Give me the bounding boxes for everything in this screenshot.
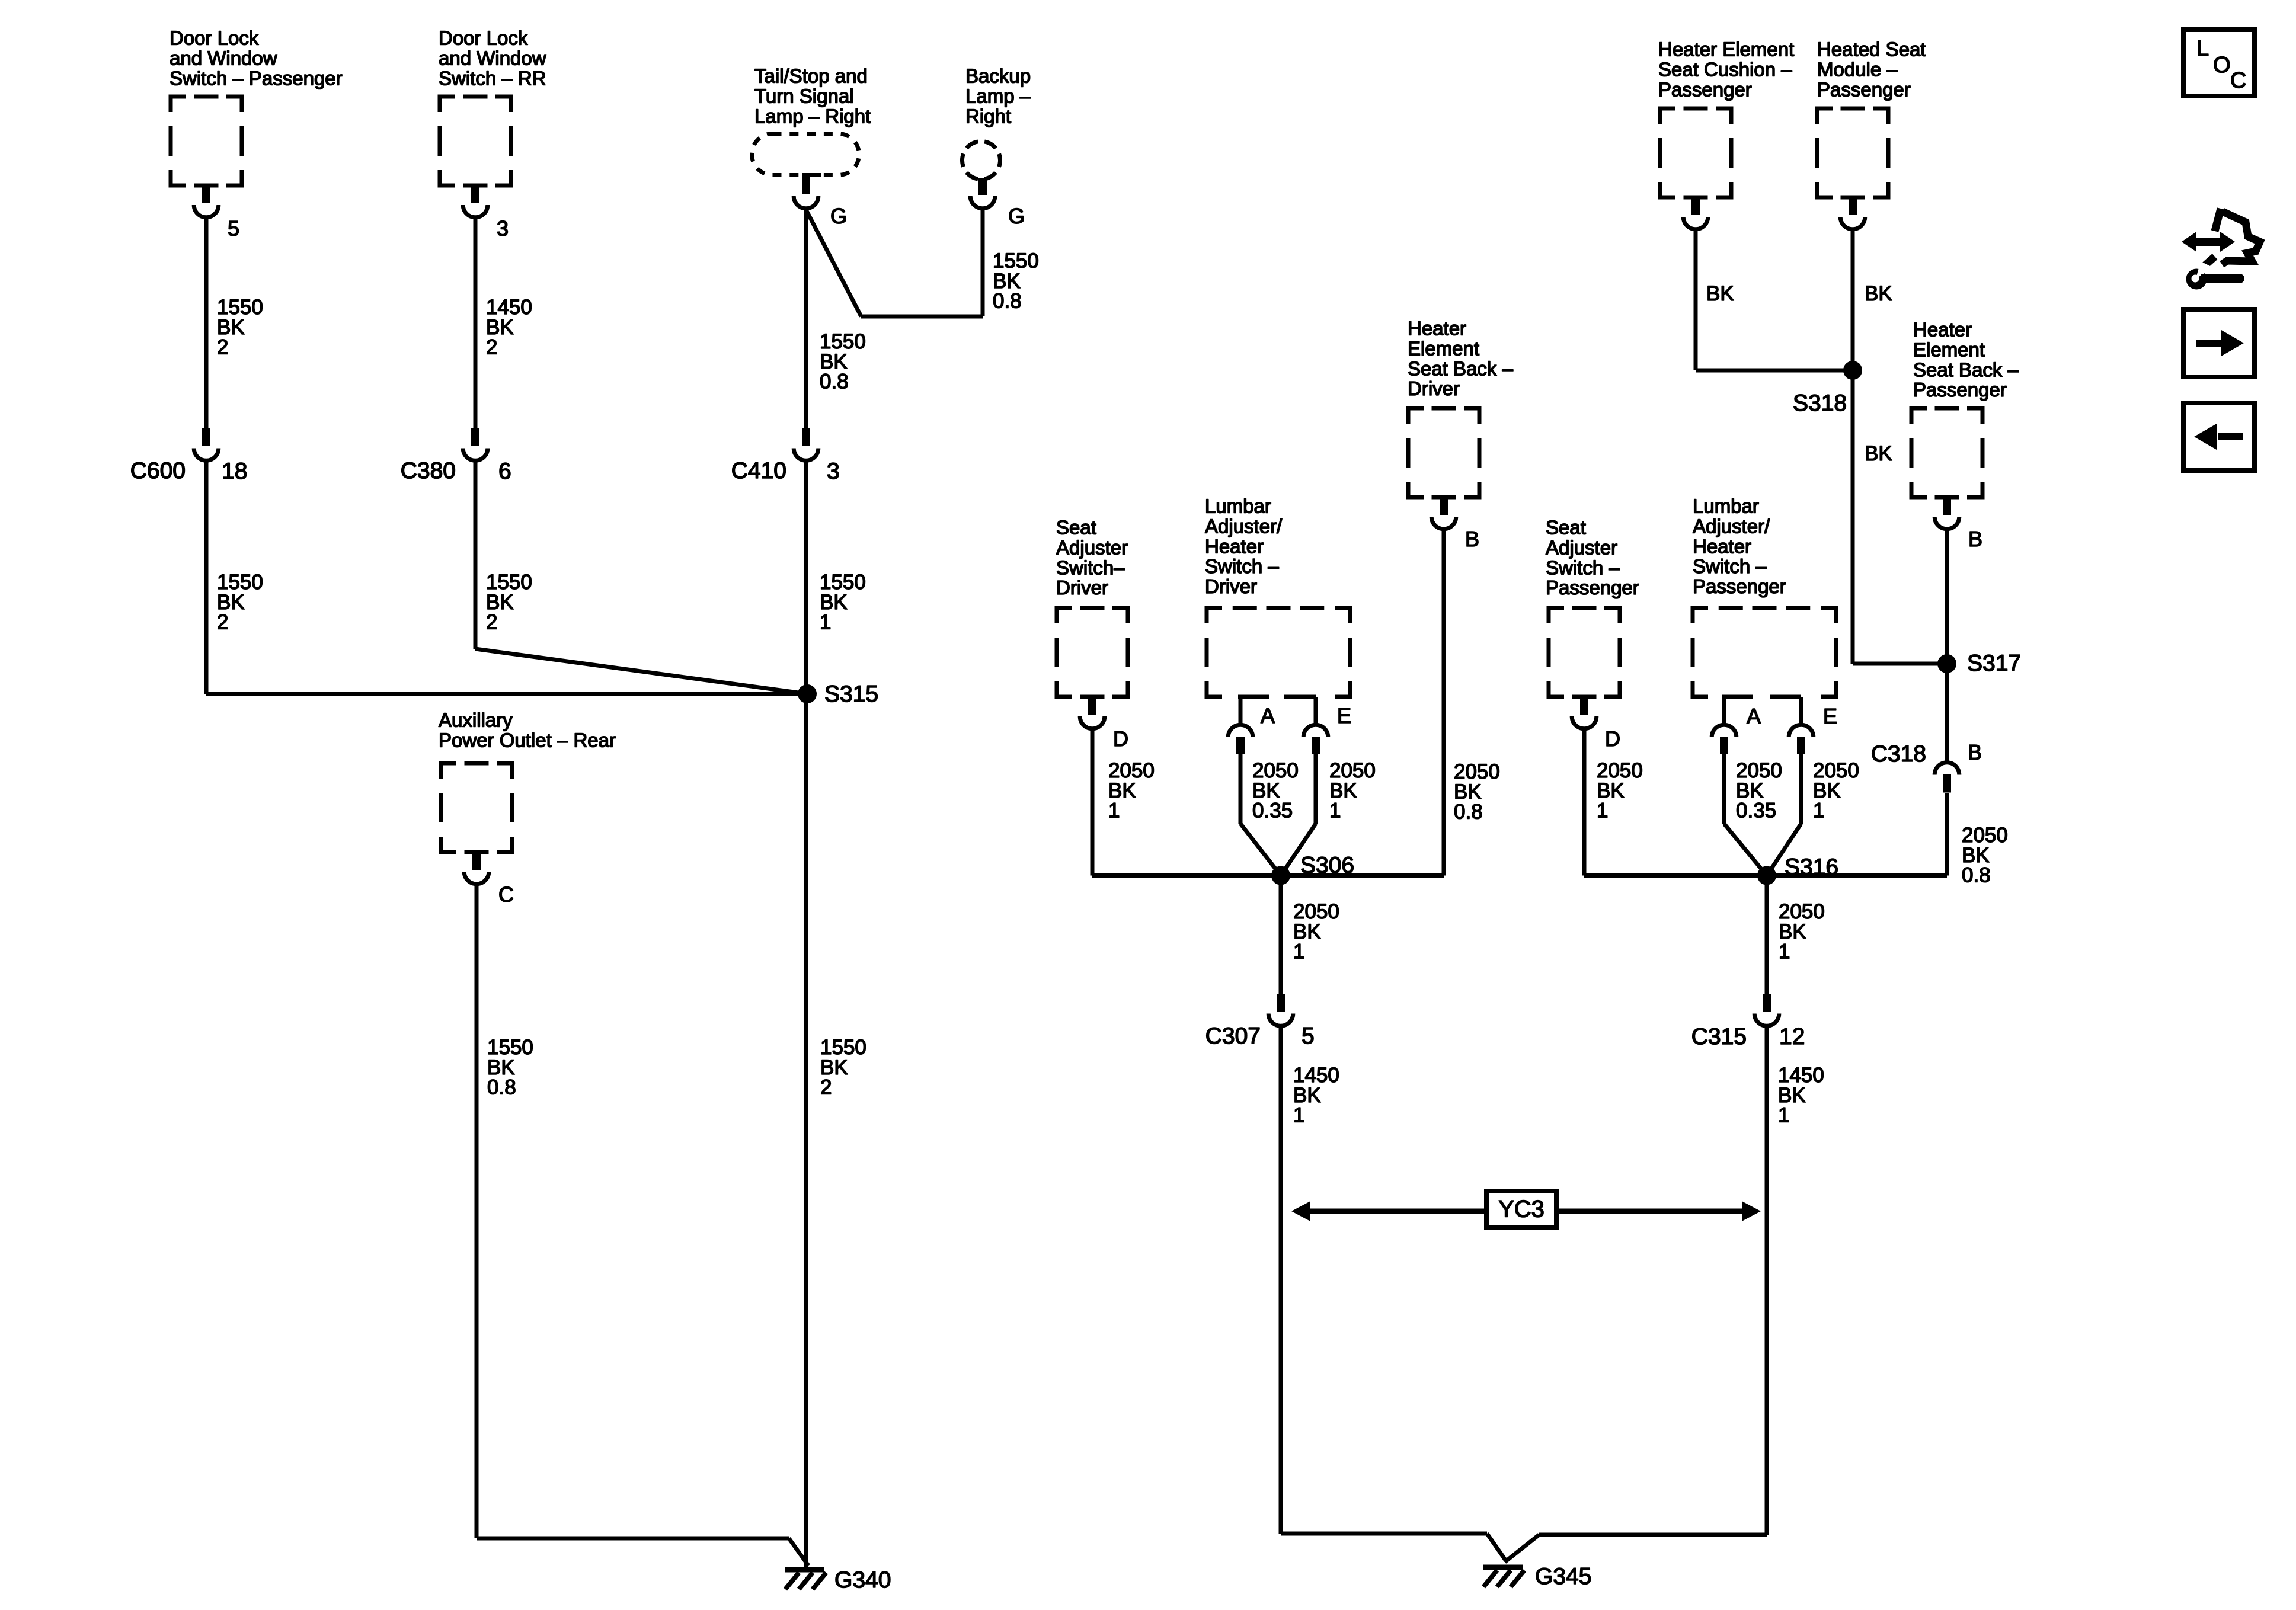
svg-text:C600: C600 (130, 458, 186, 484)
svg-text:Switch –: Switch – (1205, 555, 1279, 577)
svg-text:Switch –: Switch – (1693, 555, 1767, 577)
svg-text:Heater: Heater (1408, 318, 1466, 340)
svg-text:Seat Back –: Seat Back – (1408, 357, 1514, 379)
svg-text:5: 5 (1302, 1023, 1315, 1049)
svg-text:G345: G345 (1535, 1564, 1591, 1589)
svg-text:0.35: 0.35 (1736, 799, 1776, 822)
svg-text:C410: C410 (731, 458, 786, 484)
svg-text:BK: BK (1865, 442, 1892, 465)
svg-text:and Window: and Window (439, 47, 546, 69)
svg-text:C380: C380 (401, 458, 456, 484)
svg-text:Switch –: Switch – (1546, 556, 1620, 578)
svg-text:2: 2 (217, 611, 228, 634)
svg-text:YC3: YC3 (1498, 1196, 1544, 1222)
svg-text:Lamp –: Lamp – (965, 85, 1031, 107)
svg-text:Passenger: Passenger (1693, 575, 1786, 597)
svg-text:18: 18 (222, 459, 247, 484)
svg-text:D: D (1113, 726, 1128, 751)
svg-text:Lumbar: Lumbar (1693, 495, 1759, 517)
svg-text:Seat: Seat (1546, 517, 1586, 539)
svg-text:BK: BK (1865, 282, 1892, 305)
svg-text:S318: S318 (1793, 391, 1847, 416)
svg-text:D: D (1605, 726, 1620, 751)
svg-text:Right: Right (965, 105, 1011, 127)
svg-text:Lumbar: Lumbar (1205, 495, 1271, 517)
svg-text:O: O (2213, 53, 2231, 78)
svg-text:1: 1 (1293, 1104, 1304, 1127)
svg-text:L: L (2196, 36, 2209, 61)
svg-text:3: 3 (827, 459, 840, 484)
svg-text:Driver: Driver (1205, 575, 1257, 597)
svg-text:1: 1 (1108, 799, 1120, 822)
svg-text:B: B (1968, 740, 1982, 764)
svg-text:G: G (1008, 204, 1025, 228)
svg-text:Seat Cushion –: Seat Cushion – (1658, 59, 1792, 81)
svg-text:0.35: 0.35 (1252, 799, 1293, 822)
svg-text:1: 1 (1293, 940, 1304, 964)
svg-text:C307: C307 (1205, 1023, 1261, 1049)
svg-text:E: E (1823, 704, 1837, 728)
svg-text:1: 1 (1813, 799, 1824, 822)
svg-text:Switch – Passenger: Switch – Passenger (170, 67, 343, 89)
svg-text:Lamp – Right: Lamp – Right (754, 105, 871, 127)
svg-text:0.8: 0.8 (1454, 801, 1483, 824)
svg-text:Adjuster: Adjuster (1056, 537, 1128, 559)
svg-text:1: 1 (1329, 799, 1341, 822)
svg-text:B: B (1968, 527, 1982, 551)
svg-text:Auxillary: Auxillary (439, 709, 513, 731)
svg-text:1: 1 (820, 611, 831, 634)
svg-text:Turn Signal: Turn Signal (754, 85, 854, 107)
svg-text:0.8: 0.8 (1962, 864, 1991, 887)
svg-text:S315: S315 (824, 681, 878, 707)
svg-text:12: 12 (1779, 1024, 1805, 1049)
svg-text:Backup: Backup (965, 65, 1031, 87)
svg-text:C318: C318 (1871, 741, 1926, 767)
svg-text:Driver: Driver (1056, 577, 1108, 598)
svg-text:Door Lock: Door Lock (170, 27, 259, 49)
svg-text:3: 3 (497, 216, 509, 241)
svg-text:Door Lock: Door Lock (439, 27, 528, 49)
svg-text:Heater Element: Heater Element (1658, 39, 1794, 60)
svg-text:Seat: Seat (1056, 517, 1096, 539)
svg-text:BK: BK (1706, 282, 1734, 305)
svg-text:A: A (1261, 703, 1275, 728)
svg-text:B: B (1465, 527, 1479, 551)
svg-text:C315: C315 (1691, 1024, 1747, 1049)
svg-text:Passenger: Passenger (1546, 577, 1639, 598)
svg-text:Driver: Driver (1408, 377, 1460, 399)
svg-text:Power Outlet – Rear: Power Outlet – Rear (439, 729, 616, 751)
svg-text:2: 2 (217, 336, 228, 359)
svg-text:S317: S317 (1967, 651, 2021, 676)
svg-text:Tail/Stop and: Tail/Stop and (754, 65, 868, 87)
svg-text:Adjuster/: Adjuster/ (1205, 516, 1283, 537)
svg-text:5: 5 (228, 216, 239, 241)
svg-text:2: 2 (486, 611, 497, 634)
svg-text:Switch–: Switch– (1056, 556, 1125, 578)
svg-text:Heater: Heater (1913, 319, 1972, 341)
svg-text:G340: G340 (834, 1567, 891, 1593)
svg-text:G: G (830, 204, 847, 228)
svg-text:Heated Seat: Heated Seat (1817, 39, 1926, 60)
svg-text:Adjuster/: Adjuster/ (1693, 516, 1770, 537)
svg-text:0.8: 0.8 (993, 290, 1022, 313)
svg-text:C: C (498, 882, 514, 907)
svg-text:Passenger: Passenger (1658, 78, 1752, 100)
svg-text:S306: S306 (1300, 853, 1354, 878)
svg-text:0.8: 0.8 (820, 370, 849, 393)
svg-text:Seat Back –: Seat Back – (1913, 359, 2019, 380)
svg-text:C: C (2230, 68, 2246, 93)
svg-text:Element: Element (1408, 338, 1479, 360)
svg-text:A: A (1747, 704, 1761, 728)
svg-text:S316: S316 (1785, 854, 1838, 880)
svg-text:Heater: Heater (1693, 535, 1751, 557)
svg-text:Passenger: Passenger (1817, 78, 1911, 100)
svg-text:2: 2 (486, 336, 497, 359)
svg-text:Module –: Module – (1817, 59, 1898, 81)
svg-text:1: 1 (1779, 940, 1790, 964)
svg-text:Passenger: Passenger (1913, 379, 2007, 401)
svg-text:E: E (1337, 703, 1351, 728)
svg-text:1: 1 (1597, 799, 1608, 822)
svg-text:Element: Element (1913, 339, 1985, 361)
svg-text:2: 2 (820, 1076, 832, 1099)
svg-text:Switch – RR: Switch – RR (439, 67, 546, 89)
svg-text:and Window: and Window (170, 47, 277, 69)
svg-text:6: 6 (498, 459, 511, 484)
svg-text:0.8: 0.8 (487, 1076, 516, 1099)
svg-text:Adjuster: Adjuster (1546, 537, 1617, 559)
svg-text:1: 1 (1778, 1104, 1789, 1127)
svg-text:Heater: Heater (1205, 535, 1264, 557)
